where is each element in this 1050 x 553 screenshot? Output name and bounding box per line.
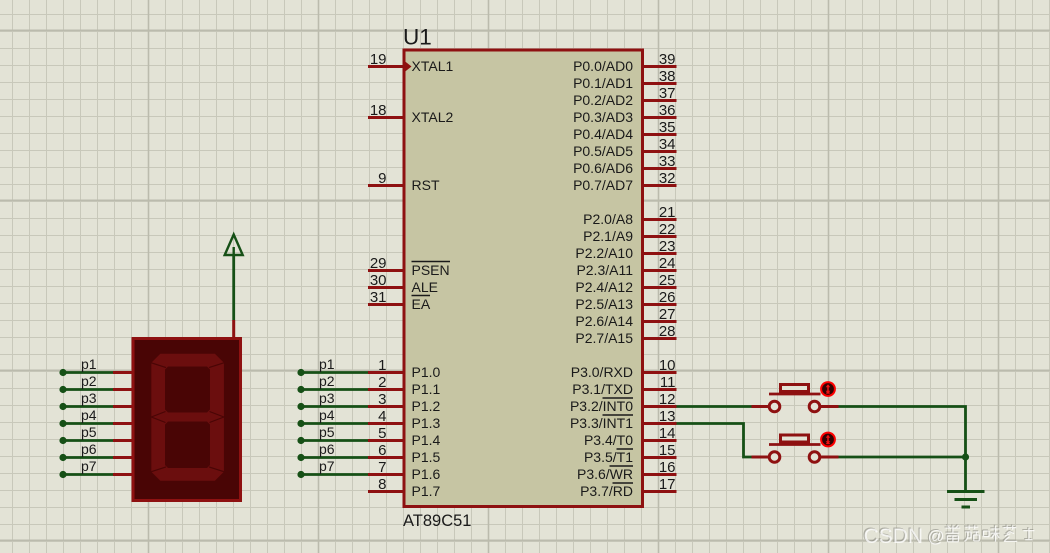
svg-text:10: 10 [659, 357, 676, 374]
svg-text:15: 15 [659, 442, 676, 459]
svg-text:@: @ [928, 528, 945, 546]
svg-text:36: 36 [659, 102, 676, 119]
svg-text:P2.6/A14: P2.6/A14 [575, 313, 633, 329]
svg-text:4: 4 [378, 408, 386, 425]
svg-text:P0.0/AD0: P0.0/AD0 [573, 58, 633, 74]
svg-text:ALE: ALE [412, 279, 438, 295]
svg-text:P2.2/A10: P2.2/A10 [575, 245, 633, 261]
svg-text:P1.6: P1.6 [412, 466, 441, 482]
svg-text:32: 32 [659, 170, 676, 187]
svg-text:19: 19 [370, 51, 387, 68]
svg-text:21: 21 [659, 204, 676, 221]
svg-text:XTAL2: XTAL2 [412, 109, 454, 125]
svg-text:22: 22 [659, 221, 676, 238]
svg-text:P3.5/T1: P3.5/T1 [584, 449, 633, 465]
svg-text:13: 13 [659, 408, 676, 425]
svg-text:3: 3 [378, 391, 386, 408]
svg-text:p7: p7 [319, 458, 335, 474]
svg-text:XTAL1: XTAL1 [412, 58, 454, 74]
svg-text:P0.2/AD2: P0.2/AD2 [573, 92, 633, 108]
svg-text:P3.4/T0: P3.4/T0 [584, 432, 633, 448]
svg-text:P3.0/RXD: P3.0/RXD [571, 364, 633, 380]
svg-text:P1.4: P1.4 [412, 432, 441, 448]
svg-text:P3.1/TXD: P3.1/TXD [572, 381, 633, 397]
svg-text:14: 14 [659, 425, 676, 442]
svg-text:AT89C51: AT89C51 [403, 512, 471, 530]
svg-text:35: 35 [659, 119, 676, 136]
svg-text:38: 38 [659, 68, 676, 85]
svg-text:P0.6/AD6: P0.6/AD6 [573, 160, 633, 176]
svg-text:6: 6 [378, 442, 386, 459]
svg-text:5: 5 [378, 425, 386, 442]
svg-text:RST: RST [412, 177, 440, 193]
svg-text:p1: p1 [81, 356, 97, 372]
svg-text:P1.5: P1.5 [412, 449, 441, 465]
svg-text:P1.1: P1.1 [412, 381, 441, 397]
svg-text:p2: p2 [319, 373, 335, 389]
svg-text:P3.6/WR: P3.6/WR [577, 466, 633, 482]
svg-text:37: 37 [659, 85, 676, 102]
svg-text:p7: p7 [81, 458, 97, 474]
svg-text:P1.2: P1.2 [412, 398, 441, 414]
svg-text:23: 23 [659, 238, 676, 255]
svg-text:7: 7 [378, 459, 386, 476]
svg-text:p5: p5 [319, 424, 335, 440]
svg-text:P0.5/AD5: P0.5/AD5 [573, 143, 633, 159]
svg-text:24: 24 [659, 255, 676, 272]
svg-text:33: 33 [659, 153, 676, 170]
svg-text:P0.7/AD7: P0.7/AD7 [573, 177, 633, 193]
svg-text:25: 25 [659, 272, 676, 289]
svg-text:P1.0: P1.0 [412, 364, 441, 380]
svg-text:PSEN: PSEN [412, 262, 450, 278]
svg-text:P3.7/RD: P3.7/RD [580, 483, 633, 499]
svg-text:p6: p6 [319, 441, 335, 457]
svg-text:P0.3/AD3: P0.3/AD3 [573, 109, 633, 125]
svg-text:16: 16 [659, 459, 676, 476]
svg-text:2: 2 [378, 374, 386, 391]
svg-text:29: 29 [370, 255, 387, 272]
svg-text:12: 12 [659, 391, 676, 408]
svg-text:p2: p2 [81, 373, 97, 389]
svg-text:34: 34 [659, 136, 676, 153]
svg-text:31: 31 [370, 289, 387, 306]
svg-text:8: 8 [378, 476, 386, 493]
svg-text:CSDN: CSDN [864, 525, 924, 548]
svg-text:1: 1 [378, 357, 386, 374]
svg-text:P3.3/INT1: P3.3/INT1 [570, 415, 633, 431]
svg-text:P2.0/A8: P2.0/A8 [583, 211, 633, 227]
svg-text:P1.3: P1.3 [412, 415, 441, 431]
svg-text:P2.1/A9: P2.1/A9 [583, 228, 633, 244]
svg-text:P3.2/INT0: P3.2/INT0 [570, 398, 633, 414]
svg-text:P1.7: P1.7 [412, 483, 441, 499]
svg-text:EA: EA [412, 296, 431, 312]
svg-text:p4: p4 [81, 407, 97, 423]
svg-text:p3: p3 [81, 390, 97, 406]
svg-text:P2.3/A11: P2.3/A11 [576, 262, 633, 278]
svg-text:18: 18 [370, 102, 387, 119]
svg-text:39: 39 [659, 51, 676, 68]
svg-text:p1: p1 [319, 356, 335, 372]
svg-text:p3: p3 [319, 390, 335, 406]
svg-text:9: 9 [378, 170, 386, 187]
svg-text:28: 28 [659, 323, 676, 340]
svg-text:26: 26 [659, 289, 676, 306]
svg-text:11: 11 [660, 374, 676, 391]
svg-text:P2.7/A15: P2.7/A15 [575, 330, 633, 346]
svg-text:p4: p4 [319, 407, 335, 423]
svg-text:30: 30 [370, 272, 387, 289]
svg-text:U1: U1 [403, 25, 432, 50]
svg-text:P0.4/AD4: P0.4/AD4 [573, 126, 633, 142]
svg-text:P2.5/A13: P2.5/A13 [575, 296, 633, 312]
svg-text:17: 17 [659, 476, 676, 493]
svg-text:P2.4/A12: P2.4/A12 [575, 279, 633, 295]
svg-text:P0.1/AD1: P0.1/AD1 [573, 75, 633, 91]
svg-text:p6: p6 [81, 441, 97, 457]
svg-text:27: 27 [659, 306, 676, 323]
svg-text:p5: p5 [81, 424, 97, 440]
